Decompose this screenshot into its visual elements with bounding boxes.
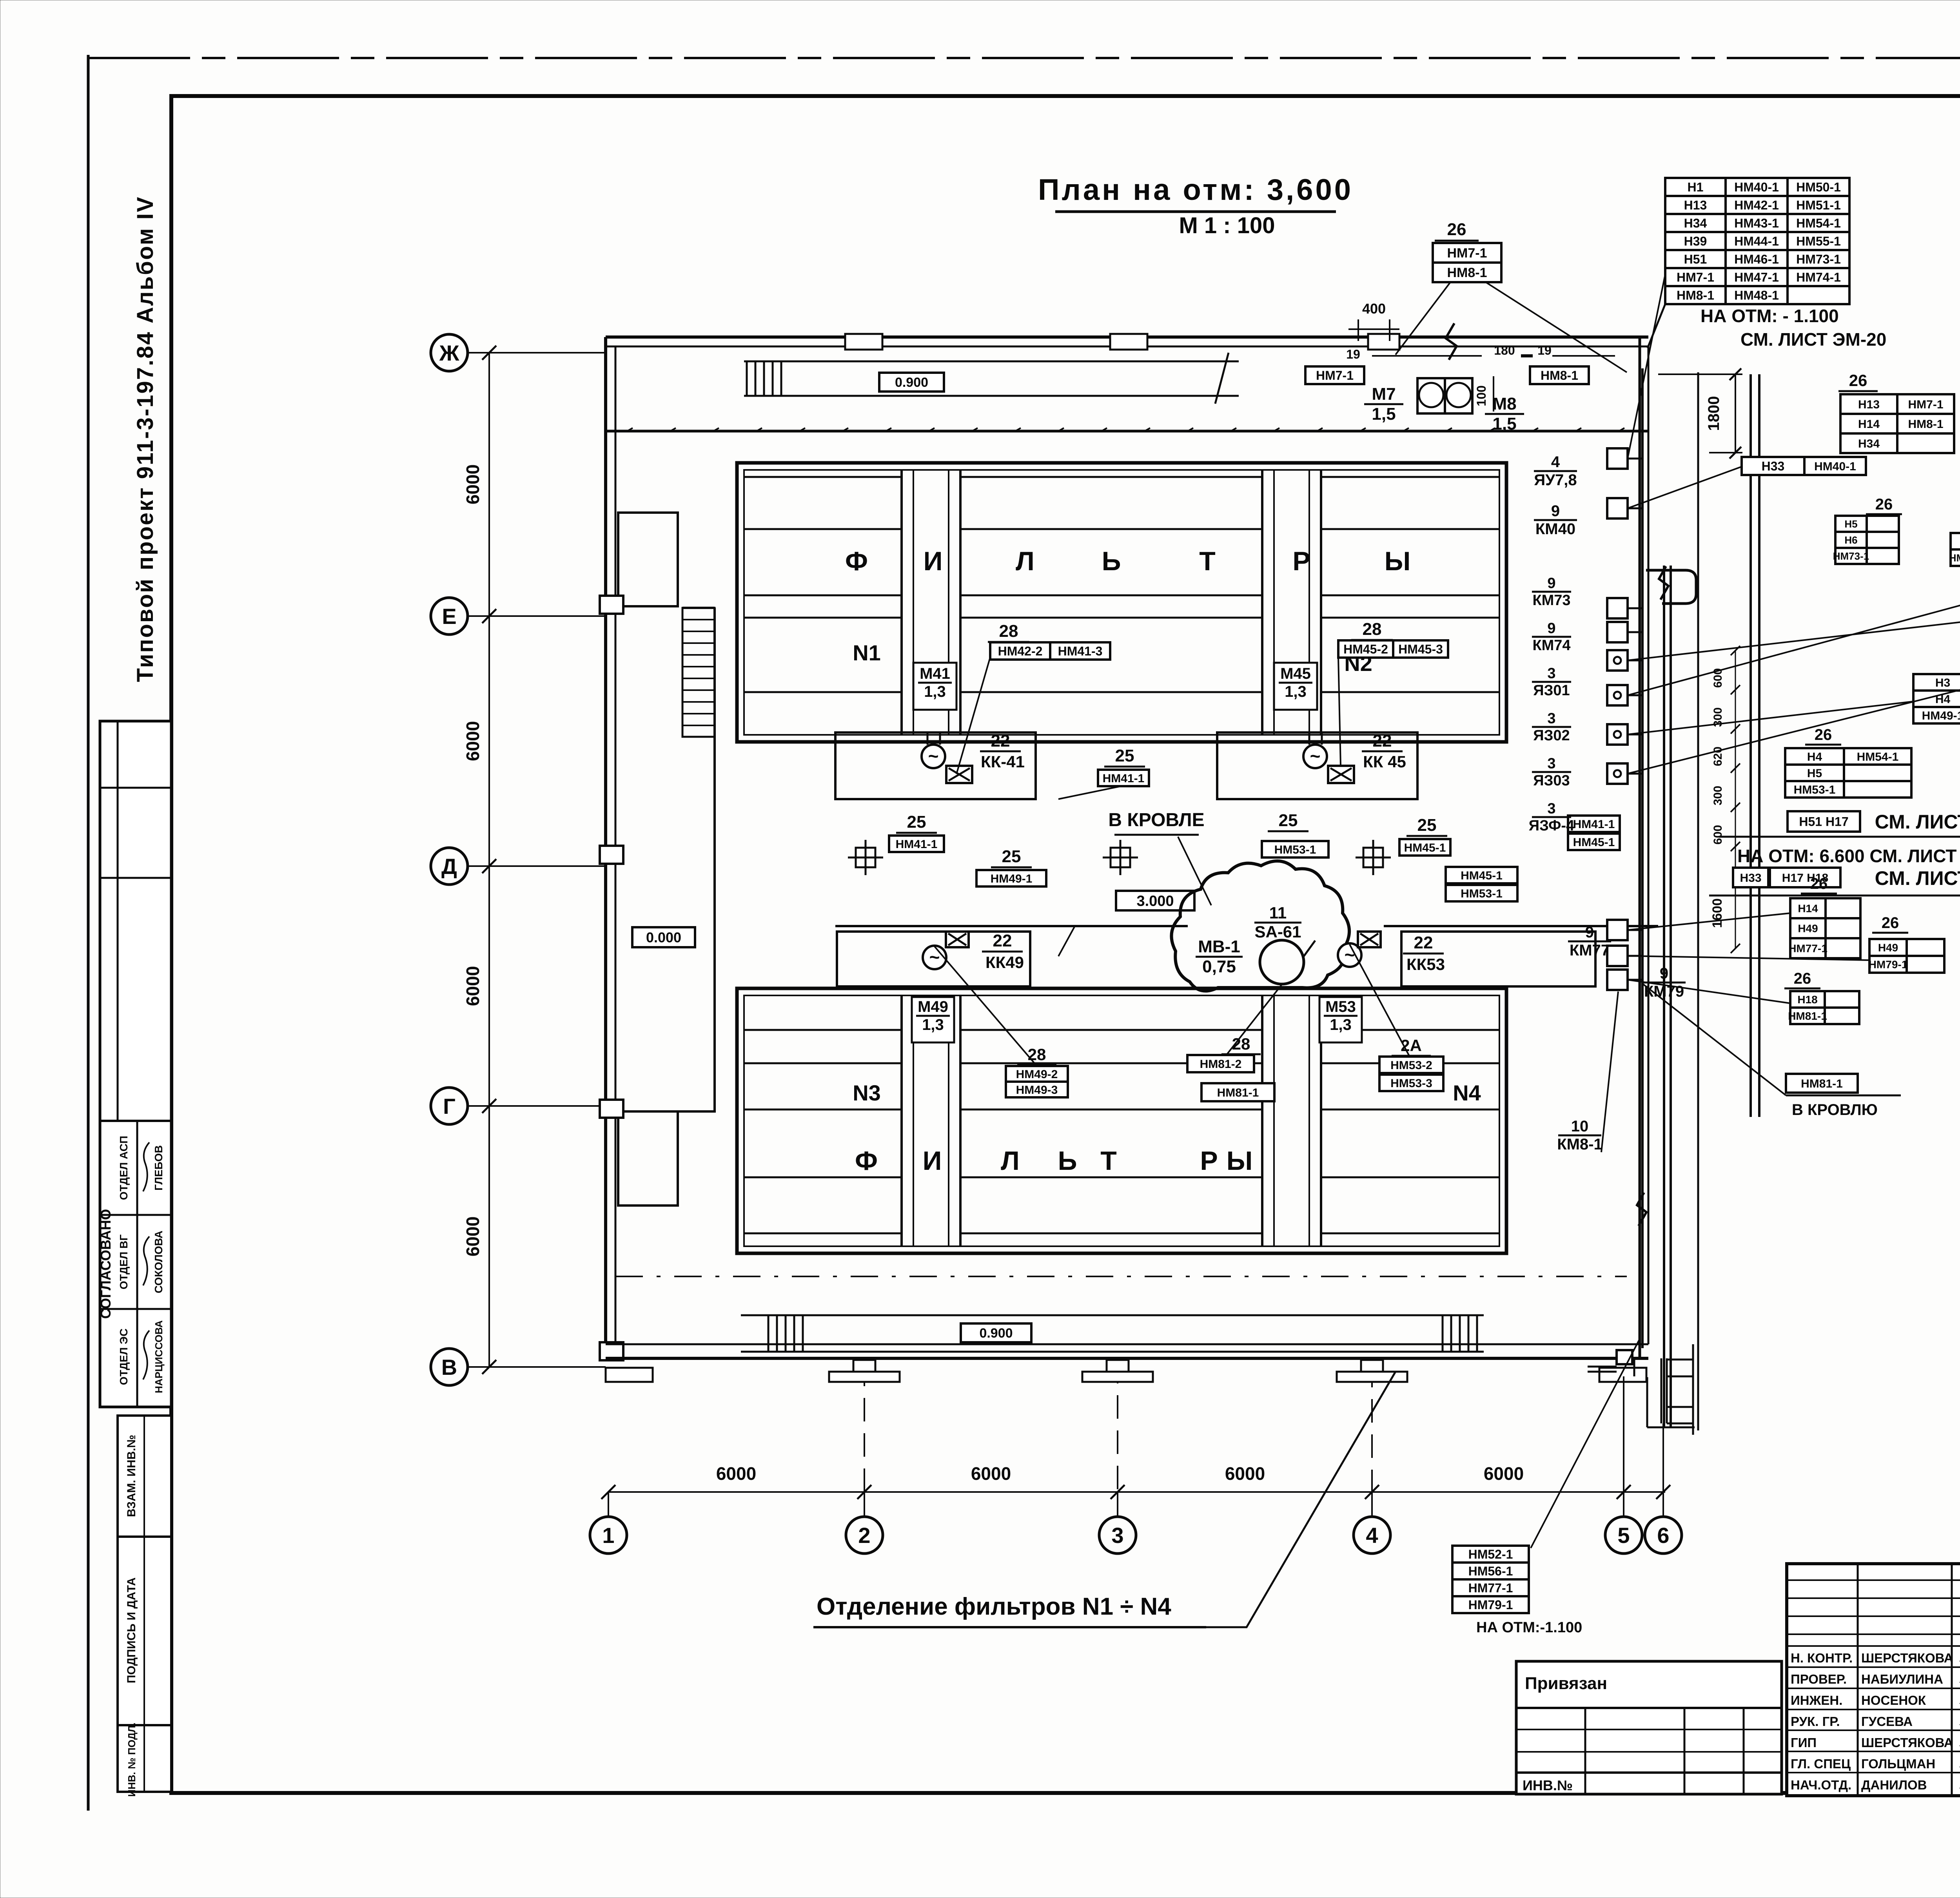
- upper block corridor strips: [900, 470, 903, 735]
- svg-text:4: 4: [1551, 453, 1560, 471]
- leader to wall 2: [1396, 282, 1450, 355]
- svg-text:Ы: Ы: [1385, 546, 1411, 576]
- svg-text:НМ73-1: НМ73-1: [1796, 252, 1841, 266]
- svg-text:26: 26: [1815, 726, 1832, 743]
- svg-text:Н18: Н18: [1797, 993, 1817, 1006]
- svg-text:КМ40: КМ40: [1535, 520, 1575, 538]
- svg-text:1: 1: [602, 1523, 614, 1548]
- svg-text:ПРОВЕР.: ПРОВЕР.: [1791, 1672, 1847, 1686]
- svg-text:0.000: 0.000: [646, 929, 681, 945]
- svg-text:1,3: 1,3: [1285, 683, 1307, 700]
- equipment boxes on east wall: [1607, 448, 1628, 469]
- svg-text:НМ45-2: НМ45-2: [1343, 642, 1388, 656]
- svg-text:Н34: Н34: [1684, 216, 1707, 230]
- svg-text:ОТДЕЛ ВГ: ОТДЕЛ ВГ: [118, 1235, 130, 1289]
- svg-text:КМ8-1: КМ8-1: [1557, 1136, 1602, 1153]
- svg-text:НМ49-3: НМ49-3: [1016, 1084, 1058, 1097]
- svg-text:НМ54-1: НМ54-1: [1796, 216, 1841, 230]
- axis Д circle: [431, 848, 468, 885]
- junction box КК49: [946, 932, 969, 947]
- table 26 Н49 НМ79-1: [1869, 939, 1944, 973]
- svg-text:НА ОТМ:-1.100: НА ОТМ:-1.100: [1476, 1619, 1582, 1636]
- svg-text:1,3: 1,3: [924, 683, 946, 700]
- svg-text:25: 25: [1279, 811, 1298, 830]
- bottom gallery strip 0.900: [741, 1314, 1484, 1316]
- svg-text:ЯЗ01: ЯЗ01: [1533, 682, 1570, 699]
- svg-text:НМ54-1: НМ54-1: [1857, 750, 1899, 763]
- building left wall: [604, 337, 607, 1358]
- svg-text:НМ7-1: НМ7-1: [1677, 270, 1714, 285]
- svg-text:НМ49-2: НМ49-2: [1016, 1068, 1058, 1081]
- table НМ52-1 .. НМ79-1: [1452, 1546, 1529, 1613]
- approval table: [100, 721, 171, 1407]
- big cable table: [1665, 178, 1849, 304]
- svg-text:0.900: 0.900: [895, 375, 928, 390]
- svg-text:Ф: Ф: [855, 1146, 878, 1176]
- svg-text:Н14: Н14: [1858, 418, 1880, 431]
- svg-text:Н13: Н13: [1858, 398, 1880, 411]
- sheet outer border left: [87, 55, 90, 1811]
- svg-text:ИНВ.№: ИНВ.№: [1523, 1777, 1573, 1793]
- box НМ8-1 top: [1530, 366, 1589, 384]
- attached room lower part: [618, 1111, 678, 1206]
- svg-text:26: 26: [1875, 496, 1893, 513]
- svg-text:НМ41-1: НМ41-1: [1573, 818, 1615, 831]
- lower filter block outer: [737, 988, 1506, 1253]
- svg-text:Н39: Н39: [1684, 234, 1707, 248]
- svg-text:25: 25: [1417, 816, 1437, 835]
- svg-text:М8: М8: [1492, 394, 1516, 413]
- svg-text:НМ56-1: НМ56-1: [1468, 1564, 1513, 1578]
- svg-text:НМ45-3: НМ45-3: [1398, 642, 1443, 656]
- svg-text:Н6: Н6: [1844, 534, 1857, 546]
- svg-text:6000: 6000: [1484, 1463, 1524, 1484]
- svg-text:28: 28: [1363, 620, 1382, 639]
- right outer wall: [1749, 374, 1752, 1117]
- svg-text:ГЛ. СПЕЦ: ГЛ. СПЕЦ: [1791, 1757, 1851, 1771]
- svg-text:Привязан: Привязан: [1525, 1674, 1607, 1693]
- svg-text:Р: Р: [1200, 1146, 1218, 1176]
- leader from НМ52 table: [1531, 1340, 1639, 1548]
- svg-text:22: 22: [991, 731, 1010, 750]
- svg-text:НМ53-1: НМ53-1: [1461, 887, 1503, 900]
- svg-text:Н5: Н5: [1844, 518, 1857, 530]
- svg-text:КК-41: КК-41: [981, 752, 1025, 771]
- svg-text:НАЧ.ОТД.: НАЧ.ОТД.: [1791, 1778, 1851, 1792]
- stack НМ41-1 НМ45-1 near wall: [1568, 816, 1620, 832]
- svg-text:3: 3: [1547, 800, 1555, 817]
- svg-text:Н5: Н5: [1807, 767, 1822, 780]
- привязан table: [1516, 1661, 1782, 1794]
- svg-text:19: 19: [1537, 343, 1552, 357]
- exhaust cloud: [1171, 861, 1349, 991]
- openings marks on top wall: [845, 334, 882, 350]
- svg-text:НМ77-1: НМ77-1: [1468, 1581, 1513, 1595]
- svg-text:400: 400: [1362, 301, 1386, 317]
- axis circle 1: [590, 1517, 627, 1554]
- svg-text:КМ74: КМ74: [1532, 637, 1570, 654]
- svg-text:100: 100: [1474, 385, 1488, 406]
- М49 strip label: [912, 997, 954, 1042]
- svg-text:НМ43-1: НМ43-1: [1734, 216, 1779, 230]
- svg-text:1,5: 1,5: [1492, 414, 1516, 433]
- box Н33: [1742, 457, 1804, 475]
- svg-text:НМ73-1: НМ73-1: [1833, 550, 1869, 562]
- svg-text:6000: 6000: [1225, 1463, 1265, 1484]
- svg-text:Л: Л: [1001, 1146, 1020, 1176]
- leader from caption: [1206, 1372, 1396, 1627]
- svg-text:НМ8-1: НМ8-1: [1677, 288, 1714, 303]
- svg-text:10: 10: [1571, 1118, 1589, 1135]
- svg-text:Н33: Н33: [1740, 872, 1761, 885]
- motor symbol КК45: [1303, 745, 1327, 768]
- motor symbol КК49: [923, 946, 946, 969]
- wall jog below В: [1646, 1377, 1648, 1427]
- svg-text:~: ~: [1310, 746, 1321, 766]
- svg-text:Ф: Ф: [845, 546, 868, 576]
- svg-text:6000: 6000: [463, 464, 483, 504]
- upper block horizontal lines: [744, 476, 902, 478]
- left vertical dimension line: [488, 353, 490, 1367]
- svg-text:26: 26: [1882, 914, 1899, 932]
- svg-text:НМ55-1: НМ55-1: [1796, 234, 1841, 248]
- svg-text:9: 9: [1660, 965, 1668, 982]
- axis line: [468, 865, 606, 867]
- upper filter block outer: [737, 463, 1506, 742]
- svg-text:Н13: Н13: [1684, 198, 1707, 212]
- label 0.900 top: [879, 373, 944, 392]
- svg-text:28: 28: [1028, 1045, 1046, 1064]
- svg-text:НМ7-1: НМ7-1: [1447, 246, 1487, 261]
- svg-text:ИНЖЕН.: ИНЖЕН.: [1791, 1693, 1842, 1708]
- svg-text:ГЛЕБОВ: ГЛЕБОВ: [152, 1145, 165, 1191]
- svg-text:М 1 : 100: М 1 : 100: [1179, 213, 1275, 238]
- svg-text:НМ41-3: НМ41-3: [1058, 644, 1103, 658]
- svg-text:Л: Л: [1016, 546, 1034, 576]
- svg-text:26: 26: [1849, 371, 1867, 390]
- svg-text:НМ81-2: НМ81-2: [1200, 1058, 1242, 1071]
- axis Ж circle: [431, 334, 468, 371]
- svg-text:СОКОЛОВА: СОКОЛОВА: [152, 1231, 165, 1293]
- motor symbol КК-41: [922, 745, 945, 768]
- svg-text:9: 9: [1547, 575, 1555, 591]
- svg-text:ПОДПИСЬ И ДАТА: ПОДПИСЬ И ДАТА: [125, 1577, 138, 1683]
- svg-text:НМ7-1: НМ7-1: [1316, 368, 1354, 383]
- junction box КК45: [1328, 766, 1354, 783]
- svg-text:ГИП: ГИП: [1791, 1735, 1817, 1750]
- svg-text:N1: N1: [853, 640, 881, 665]
- svg-text:НА ОТМ: - 1.100: НА ОТМ: - 1.100: [1700, 306, 1839, 326]
- svg-text:Г: Г: [443, 1094, 456, 1118]
- svg-text:Н49: Н49: [1798, 923, 1818, 935]
- svg-text:НМ77-1: НМ77-1: [1788, 943, 1828, 955]
- svg-text:Р: Р: [1292, 546, 1310, 576]
- label 0.000: [632, 927, 695, 947]
- svg-text:СОГЛАСОВАНО: СОГЛАСОВАНО: [98, 1209, 114, 1319]
- svg-text:ЯЗ02: ЯЗ02: [1533, 727, 1570, 744]
- svg-text:~: ~: [1345, 944, 1355, 965]
- svg-text:КМ77: КМ77: [1570, 942, 1610, 959]
- svg-text:Н49: Н49: [1878, 942, 1898, 954]
- М41 strip label: [913, 663, 956, 710]
- right wall cable risers: [1641, 368, 1644, 1348]
- svg-text:25: 25: [907, 812, 926, 832]
- middle corridor line: [835, 925, 1188, 927]
- lower pump room right: [1401, 932, 1595, 986]
- svg-text:ОТДЕЛ ЭС: ОТДЕЛ ЭС: [118, 1329, 130, 1385]
- svg-text:Отделение фильтров N1 ÷ N: Отделение фильтров N1 ÷ N4: [817, 1593, 1171, 1620]
- svg-text:НМ51-1: НМ51-1: [1796, 198, 1841, 212]
- svg-text:В КРОВЛЕ: В КРОВЛЕ: [1108, 810, 1204, 830]
- М45 strip label: [1274, 663, 1317, 710]
- ladder east of corridor: [1692, 1344, 1694, 1435]
- svg-text:25: 25: [1002, 847, 1021, 866]
- svg-text:~: ~: [928, 746, 939, 766]
- top gallery strip 0.900: [744, 361, 1239, 363]
- axis circle 4: [1354, 1517, 1390, 1554]
- box НМ81-1: [1786, 1074, 1858, 1093]
- axis line: [468, 352, 606, 353]
- svg-text:СМ. ЛИСТ ЭМ-25: СМ. ЛИСТ ЭМ-25: [1875, 867, 1960, 889]
- axis 4 line: [1371, 1368, 1373, 1493]
- svg-text:НОСЕНОК: НОСЕНОК: [1861, 1693, 1926, 1708]
- svg-text:НМ81-1: НМ81-1: [1788, 1010, 1827, 1022]
- svg-text:НМ52-1: НМ52-1: [1468, 1547, 1513, 1561]
- svg-text:N3: N3: [853, 1080, 881, 1105]
- table 26 Н4 Н5: [1785, 748, 1911, 798]
- svg-text:ВЗАМ. ИНВ.№: ВЗАМ. ИНВ.№: [125, 1435, 138, 1517]
- svg-text:6000: 6000: [716, 1463, 756, 1484]
- svg-text:1,5: 1,5: [1372, 404, 1396, 424]
- building top exterior wall: [606, 335, 1648, 339]
- svg-text:Н1: Н1: [1688, 180, 1704, 194]
- table 26 Н3 Н4: [1913, 674, 1960, 723]
- pump room box left: [835, 732, 1036, 799]
- svg-text:0.900: 0.900: [979, 1326, 1013, 1341]
- axis line: [468, 615, 606, 617]
- svg-text:Н51: Н51: [1684, 252, 1707, 266]
- svg-text:НМ53-3: НМ53-3: [1390, 1077, 1432, 1090]
- svg-text:9: 9: [1551, 502, 1560, 520]
- svg-text:3.000: 3.000: [1136, 893, 1174, 910]
- М7 fan boxes: [1417, 378, 1445, 413]
- svg-text:1800: 1800: [1705, 396, 1722, 431]
- svg-text:6000: 6000: [463, 966, 483, 1006]
- axis Г circle: [431, 1088, 468, 1124]
- svg-text:Н. КОНТР.: Н. КОНТР.: [1791, 1651, 1853, 1665]
- table 26 Н5 Н6 НМ73-1: [1835, 516, 1899, 564]
- right corridor partition: [1697, 372, 1699, 1430]
- axis Е circle: [431, 598, 468, 634]
- svg-text:2: 2: [858, 1523, 870, 1548]
- svg-text:НМ42-1: НМ42-1: [1734, 198, 1779, 212]
- svg-text:НМ74-1: НМ74-1: [1796, 270, 1841, 285]
- svg-text:НМ49-1: НМ49-1: [1922, 709, 1960, 722]
- svg-text:9: 9: [1585, 924, 1594, 941]
- cable tray loop top: [1646, 570, 1696, 604]
- svg-text:М45: М45: [1280, 665, 1311, 682]
- svg-text:НМ45-1: НМ45-1: [1573, 836, 1615, 849]
- break mark top strip: [1215, 353, 1229, 404]
- svg-text:Ь: Ь: [1058, 1146, 1077, 1176]
- svg-text:ГОЛЬЦМАН: ГОЛЬЦМАН: [1861, 1757, 1935, 1771]
- axis line: [468, 1366, 606, 1368]
- fan connection: [1304, 941, 1315, 956]
- axis circle 3: [1099, 1517, 1136, 1554]
- bottom gallery dash line: [615, 1276, 1627, 1277]
- svg-text:МВ-1: МВ-1: [1198, 937, 1240, 956]
- svg-text:КК49: КК49: [985, 953, 1024, 972]
- svg-text:Е: Е: [442, 604, 456, 629]
- svg-text:180: 180: [1494, 343, 1515, 357]
- lower pump room left: [837, 932, 1030, 986]
- junction box КК53: [1358, 932, 1381, 947]
- svg-text:3: 3: [1547, 665, 1555, 682]
- svg-text:22: 22: [1373, 731, 1392, 750]
- box НМ40-1: [1804, 457, 1866, 475]
- svg-text:Н14: Н14: [1798, 903, 1818, 915]
- leader lines upper pump area: [956, 657, 990, 774]
- junction box КК41: [946, 766, 972, 783]
- stack НМ45-1 НМ53-1: [1446, 867, 1517, 883]
- svg-text:ЯЗ03: ЯЗ03: [1533, 772, 1570, 789]
- svg-text:26: 26: [1447, 220, 1466, 239]
- risers to axis circles 5 6: [1623, 1376, 1624, 1517]
- axis circle 2: [846, 1517, 883, 1554]
- fan МВ-1: [1260, 940, 1304, 984]
- attached room left: [618, 513, 678, 606]
- svg-text:600: 600: [1711, 825, 1724, 845]
- svg-text:НМ48-1: НМ48-1: [1734, 288, 1779, 303]
- table 26 Н14 Н49: [1790, 898, 1860, 958]
- svg-text:Н4: Н4: [1807, 750, 1822, 763]
- svg-text:9: 9: [1547, 620, 1555, 636]
- axis В circle: [431, 1349, 468, 1385]
- svg-text:НМ74-1: НМ74-1: [1949, 552, 1960, 564]
- svg-text:НМ81-1: НМ81-1: [1217, 1086, 1259, 1099]
- М53 strip label: [1319, 997, 1362, 1042]
- svg-text:0,75: 0,75: [1202, 957, 1236, 976]
- svg-text:НМ44-1: НМ44-1: [1734, 234, 1779, 248]
- lower block corridor strips: [900, 995, 903, 1246]
- staircase: [682, 608, 715, 737]
- svg-text:1,3: 1,3: [922, 1016, 944, 1033]
- svg-text:НМ45-1: НМ45-1: [1461, 869, 1503, 882]
- table 26 Н18 НМ81-1: [1790, 991, 1859, 1024]
- left margin strips: [118, 1416, 171, 1537]
- svg-text:НАРЦИССОВА: НАРЦИССОВА: [153, 1320, 165, 1393]
- svg-text:НА ОТМ: 6.600 СМ. ЛИСТ ЭМ-24: НА ОТМ: 6.600 СМ. ЛИСТ ЭМ-24: [1737, 846, 1960, 866]
- svg-text:Т: Т: [1199, 546, 1216, 576]
- svg-text:М49: М49: [918, 998, 948, 1015]
- svg-text:Н3: Н3: [1935, 676, 1950, 689]
- svg-text:3: 3: [1547, 755, 1555, 772]
- svg-text:4: 4: [1366, 1523, 1378, 1548]
- svg-text:SA-61: SA-61: [1254, 923, 1301, 941]
- pump room box right: [1217, 732, 1417, 799]
- column marks middle: [848, 840, 883, 875]
- svg-text:НМ53-1: НМ53-1: [1794, 783, 1836, 796]
- svg-text:СМ. ЛИСТ ЭМ-20: СМ. ЛИСТ ЭМ-20: [1740, 329, 1886, 350]
- building bottom wall: [606, 1343, 1648, 1345]
- hall north wall: [606, 430, 1648, 433]
- svg-text:КМ73: КМ73: [1532, 592, 1570, 609]
- svg-text:3: 3: [1111, 1523, 1123, 1548]
- svg-text:НМ41-1: НМ41-1: [1103, 772, 1145, 785]
- axis line: [468, 1105, 606, 1107]
- svg-text:1,3: 1,3: [1330, 1016, 1352, 1033]
- svg-text:11: 11: [1269, 904, 1287, 922]
- svg-text:6000: 6000: [971, 1463, 1011, 1484]
- svg-text:25: 25: [1115, 746, 1134, 765]
- svg-text:НМ49-1: НМ49-1: [991, 872, 1033, 885]
- bottom axis dimension line: [608, 1491, 1665, 1493]
- svg-text:НМ8-1: НМ8-1: [1447, 265, 1487, 280]
- svg-text:5: 5: [1617, 1523, 1630, 1548]
- см. лист lines: [1788, 811, 1860, 832]
- corridor below В: [1625, 1358, 1627, 1364]
- svg-text:НМ53-1: НМ53-1: [1274, 843, 1316, 856]
- svg-text:22: 22: [1414, 933, 1433, 952]
- svg-text:Ь: Ь: [1102, 546, 1121, 576]
- svg-text:Н33: Н33: [1762, 459, 1785, 473]
- svg-text:НМ7-1: НМ7-1: [1908, 398, 1943, 411]
- svg-text:3: 3: [1547, 710, 1555, 727]
- svg-text:В: В: [441, 1355, 457, 1380]
- svg-text:ШЕРСТЯКОВА: ШЕРСТЯКОВА: [1861, 1651, 1953, 1665]
- svg-text:6: 6: [1657, 1523, 1669, 1548]
- svg-text:М41: М41: [920, 665, 950, 682]
- svg-text:Н51 Н17: Н51 Н17: [1799, 815, 1848, 829]
- box НМ7-1 top: [1305, 366, 1364, 384]
- svg-text:М7: М7: [1372, 384, 1396, 404]
- svg-text:Ы: Ы: [1227, 1146, 1253, 1176]
- svg-text:22: 22: [993, 931, 1012, 950]
- svg-text:6000: 6000: [463, 1216, 483, 1256]
- leader lines lower: [935, 946, 1037, 1066]
- svg-text:Типовой проект 911-3-197.84: Типовой проект 911-3-197.84 Альбом IV: [132, 196, 158, 682]
- svg-text:N4: N4: [1453, 1080, 1481, 1105]
- svg-text:НМ79-1: НМ79-1: [1468, 1598, 1513, 1612]
- building right wall: [1639, 337, 1641, 1358]
- svg-text:НМ47-1: НМ47-1: [1734, 270, 1779, 285]
- svg-text:НМ79-1: НМ79-1: [1869, 959, 1908, 971]
- leader from big table: [1648, 304, 1665, 348]
- svg-text:Т: Т: [1100, 1146, 1117, 1176]
- svg-text:Д: Д: [441, 854, 457, 879]
- label 3.000: [1116, 891, 1194, 910]
- svg-text:И: И: [923, 1146, 942, 1176]
- svg-text:28: 28: [999, 622, 1018, 641]
- svg-text:НМ81-1: НМ81-1: [1801, 1077, 1843, 1090]
- sheet outer border top: [88, 57, 1960, 59]
- table 26 Н13 НМ7-1: [1840, 394, 1954, 453]
- column bases below В wall: [853, 1360, 875, 1376]
- svg-text:НМ8-1: НМ8-1: [1908, 418, 1943, 431]
- svg-text:НМ40-1: НМ40-1: [1734, 180, 1779, 194]
- svg-text:6000: 6000: [463, 721, 483, 761]
- leader fan lines right: [1628, 274, 1665, 459]
- svg-text:НМ45-1: НМ45-1: [1404, 841, 1446, 854]
- svg-text:Н34: Н34: [1858, 437, 1880, 450]
- svg-text:ГУСЕВА: ГУСЕВА: [1861, 1714, 1913, 1729]
- svg-text:И: И: [924, 546, 943, 576]
- svg-text:М53: М53: [1325, 998, 1356, 1015]
- svg-text:26: 26: [1810, 875, 1828, 892]
- svg-text:ИНВ. № ПОДЛ.: ИНВ. № ПОДЛ.: [126, 1722, 138, 1796]
- svg-text:КК 45: КК 45: [1363, 752, 1406, 771]
- svg-text:ЯУ7,8: ЯУ7,8: [1534, 471, 1577, 489]
